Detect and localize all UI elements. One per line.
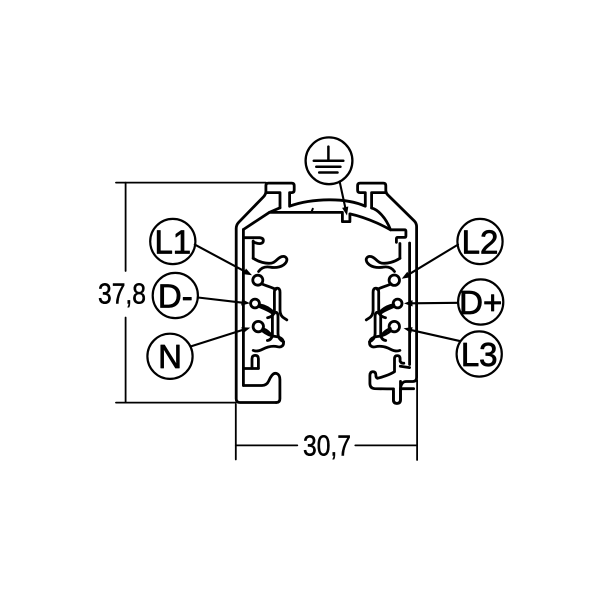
leader D+	[411, 302, 459, 305]
right insulator fin 1	[366, 288, 385, 320]
left contact finger 3	[253, 331, 283, 351]
leader N arrowhead	[241, 327, 250, 333]
leader N	[191, 330, 245, 347]
ground leader	[340, 182, 346, 211]
right insulator fin 2	[370, 312, 386, 342]
right link fin2-circle3	[381, 329, 391, 337]
left link circle1-fin1	[262, 284, 276, 290]
label L3 circle	[457, 331, 502, 376]
left insulator top shelf	[243, 238, 263, 259]
left insulator bottom tab	[243, 355, 258, 368]
track profile outer contour	[236, 183, 416, 403]
track profile bottom-right arm	[370, 372, 414, 389]
track profile bottom-right stem	[393, 381, 400, 403]
leader L3 arrowhead	[404, 327, 413, 333]
left insulator fin 2	[267, 312, 283, 342]
right link circle2-fin2	[382, 306, 395, 312]
leader D+ arrowhead	[404, 300, 413, 306]
label D+ circle	[458, 279, 503, 324]
right contact finger 3	[370, 331, 400, 351]
right link circle1-fin1	[377, 284, 391, 290]
right insulator bottom pocket	[377, 372, 394, 378]
label L1 circle	[150, 219, 195, 264]
svg-text:30,7: 30,7	[303, 430, 351, 462]
conductor L3	[389, 321, 399, 331]
right ear stem	[372, 193, 386, 208]
dimension 30,7 extension line right	[416, 380, 418, 460]
ground leader arrowhead	[342, 207, 348, 216]
conductor D+	[393, 299, 402, 308]
left link circle2-fin2	[259, 306, 272, 312]
label N circle	[147, 334, 192, 379]
right contact finger 1	[366, 256, 400, 271]
dimension 37,8 extension line top	[116, 182, 266, 184]
conductor L1	[253, 275, 263, 285]
dimension 30,7 line	[236, 444, 417, 446]
ground symbol circle	[306, 137, 353, 184]
left insulator fin 1	[268, 288, 287, 320]
ceiling tick	[311, 209, 313, 213]
svg-text:L2: L2	[462, 223, 499, 260]
ground symbol	[314, 147, 344, 173]
label L2 circle	[457, 219, 502, 264]
conductor L2	[389, 275, 399, 285]
svg-text:37,8: 37,8	[98, 279, 146, 311]
leader L1	[195, 245, 247, 273]
conductor D-	[251, 299, 260, 308]
leader L2	[408, 245, 459, 276]
right link fin1-circle2	[379, 305, 394, 314]
label D- circle	[153, 273, 198, 318]
dimension 37,8 line	[125, 183, 127, 403]
dimension 37,8 extension line bottom	[116, 402, 236, 404]
svg-text:D+: D+	[459, 284, 502, 321]
left link fin1-circle2	[259, 305, 274, 314]
leader L1 arrowhead	[243, 269, 252, 276]
right insulator bottom tab	[395, 356, 410, 372]
svg-text:N: N	[158, 338, 182, 375]
left ear stem	[267, 193, 281, 208]
leader L3	[410, 330, 461, 341]
track profile inner ceiling	[243, 208, 406, 243]
left link fin2-circle3	[263, 329, 273, 337]
right insulator top channel	[398, 244, 401, 259]
track profile inner wall right	[408, 243, 411, 365]
leader D- arrowhead	[241, 299, 250, 305]
svg-text:D-: D-	[158, 277, 193, 314]
left contact finger 1	[253, 256, 287, 271]
dimension 30,7 extension line left	[235, 404, 237, 460]
track profile inner wall left	[242, 230, 245, 386]
leader D-	[198, 298, 244, 303]
svg-text:L3: L3	[461, 336, 498, 373]
track profile bottom-left foot	[243, 373, 280, 402]
conductor N	[253, 321, 263, 331]
leader L2 arrowhead	[402, 272, 411, 279]
svg-text:L1: L1	[154, 223, 191, 260]
